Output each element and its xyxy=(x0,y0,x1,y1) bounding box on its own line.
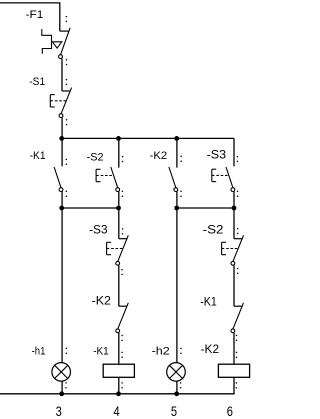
wire bus2 to lamp h1 xyxy=(61,208,63,363)
svg-text:3: 3 xyxy=(56,403,62,419)
wire K2 to bus2 xyxy=(176,191,178,208)
wire S2 to bus2 xyxy=(118,191,120,208)
junction bus2 col B xyxy=(116,206,121,211)
junction bus2 col A xyxy=(59,206,64,211)
pin colon K1 bottom xyxy=(66,191,68,193)
pin colon coil K1 bottom xyxy=(121,382,123,384)
junction rail col C xyxy=(174,391,179,396)
pin colon h2 bottom xyxy=(180,382,182,384)
relay coil K2 xyxy=(218,364,249,377)
junction rail col A xyxy=(59,391,64,396)
pushbutton S2 (make contact, manual actuator) xyxy=(111,167,118,188)
wire bus2 to lamp h2 xyxy=(176,208,178,363)
pin colon S1 bottom xyxy=(66,119,68,121)
wire lamp h2 to rail xyxy=(176,381,178,394)
relay contact K1 (make contact) xyxy=(54,167,61,188)
svg-text:-S3: -S3 xyxy=(89,225,108,237)
junction bus1 col C xyxy=(174,136,179,141)
svg-text:-S2: -S2 xyxy=(203,225,224,237)
pin colon S2 row2 bottom xyxy=(237,268,239,270)
wire: bottom return rail xyxy=(0,393,235,395)
relay contact K2 (make contact) xyxy=(169,167,176,188)
pin colon S3 row1 bottom xyxy=(237,191,239,193)
junction bus2 col D xyxy=(232,206,237,211)
wire bus1 to K2 xyxy=(176,138,178,167)
junction bus2 col C xyxy=(174,206,179,211)
pushbutton S1 (break contact, manual actuator) xyxy=(62,90,70,92)
pin colon S1 top xyxy=(66,79,68,81)
pin colon coil K1 top xyxy=(121,352,123,354)
pin colon F1 bottom xyxy=(66,59,68,61)
pin colon S2 row1 top xyxy=(122,156,124,158)
wire bus2 to S2 break contact xyxy=(233,208,235,239)
junction bus1 col A xyxy=(59,136,64,141)
wire: horizontal node bus1 xyxy=(62,137,234,139)
relay coil K1 xyxy=(103,364,134,377)
wire bus2 to S3 break contact xyxy=(118,208,120,239)
pin colon S3 row2 bottom xyxy=(121,269,123,271)
pin colon h1 bottom xyxy=(65,382,67,384)
wire: top supply rail L+ xyxy=(0,2,60,4)
relay contact K2 (break contact) xyxy=(119,305,127,307)
relay contact K1 (break contact) xyxy=(234,305,242,307)
pin colon S3 row1 top xyxy=(237,156,239,158)
svg-text:-S3: -S3 xyxy=(207,150,227,162)
svg-text:-K1: -K1 xyxy=(30,150,46,162)
svg-text:6: 6 xyxy=(227,403,233,419)
circuit breaker F1 (break contact with thermal release) xyxy=(60,30,69,32)
svg-text:-S1: -S1 xyxy=(29,76,45,88)
wire K2 to coil K1 xyxy=(118,333,120,365)
wire K1 to coil K2 xyxy=(233,333,235,365)
pin colon h2 top xyxy=(180,348,182,350)
svg-text:-K1: -K1 xyxy=(200,296,217,308)
wire coil K1 to rail xyxy=(118,377,120,394)
pin colon coil K2 bottom xyxy=(236,382,238,384)
pin colon K2 row1 bottom xyxy=(180,191,182,193)
junction rail col B xyxy=(116,391,121,396)
pin colon K1 top xyxy=(66,159,68,161)
pin colon K2 row1 top xyxy=(180,156,182,158)
lamp h2 (indicator light) xyxy=(167,363,186,382)
wire: node bus2 left segment xyxy=(62,207,119,209)
pushbutton S2 (break contact, manual actuator) xyxy=(234,238,242,240)
wire coil K2 to rail xyxy=(233,377,235,394)
wire F1 to S1 xyxy=(61,59,63,91)
wire bus1 to K1 xyxy=(61,138,63,166)
svg-text:-h1: -h1 xyxy=(32,346,46,358)
pushbutton S3 (break contact, manual actuator) xyxy=(119,238,127,240)
pin colon F1 top xyxy=(66,16,68,18)
svg-text:4: 4 xyxy=(114,403,120,419)
svg-text:-K1: -K1 xyxy=(93,345,109,357)
svg-text:-h2: -h2 xyxy=(152,346,170,358)
svg-text:-F1: -F1 xyxy=(26,9,44,21)
pin colon S3 row2 top xyxy=(122,228,124,230)
wire lamp h1 to rail xyxy=(61,381,63,394)
pushbutton S3 (make contact, manual actuator) xyxy=(226,167,233,188)
pin colon coil K2 top xyxy=(236,352,238,354)
pin colon K1 row2 bottom xyxy=(236,335,238,337)
wire S2 to K1 break contact xyxy=(233,265,235,306)
svg-text:-K2: -K2 xyxy=(92,296,111,308)
svg-text:-S2: -S2 xyxy=(87,152,104,164)
svg-text:-K2: -K2 xyxy=(201,344,220,356)
wire bus1 to S2 xyxy=(118,138,120,167)
wire S3 to bus2 xyxy=(233,191,235,208)
wire K1 to bus2 xyxy=(61,191,63,208)
junction bus1 col B xyxy=(116,136,121,141)
wire S1 to node bus1 xyxy=(61,118,63,139)
pin colon S2 row1 bottom xyxy=(122,191,124,193)
wire: node bus2 right segment xyxy=(177,207,234,209)
svg-text:5: 5 xyxy=(171,403,177,419)
svg-text:-K2: -K2 xyxy=(150,150,168,162)
pin colon h1 top xyxy=(66,348,68,350)
pin colon K2 row2 bottom xyxy=(121,335,123,337)
pin colon S2 row2 top xyxy=(237,228,239,230)
lamp h1 (indicator light) xyxy=(52,363,71,382)
wire S3 to K2 break contact xyxy=(118,265,120,306)
